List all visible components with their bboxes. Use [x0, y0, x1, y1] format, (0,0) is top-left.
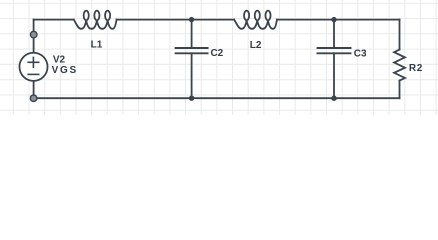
svg-text:L1: L1 [91, 40, 103, 51]
svg-text:V2: V2 [53, 55, 66, 66]
svg-text:R2: R2 [409, 63, 423, 74]
svg-text:C3: C3 [354, 49, 367, 60]
svg-text:L2: L2 [250, 40, 262, 51]
svg-text:C2: C2 [210, 48, 223, 59]
svg-text:VGS: VGS [52, 65, 78, 76]
